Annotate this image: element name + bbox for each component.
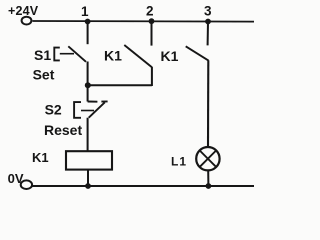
wire branch1 below S1 xyxy=(87,62,89,86)
svg-text:3: 3 xyxy=(204,4,212,19)
svg-text:K1: K1 xyxy=(161,48,179,64)
switch S2 blade xyxy=(89,102,105,117)
svg-text:Reset: Reset xyxy=(44,122,82,138)
svg-text:2: 2 xyxy=(146,4,154,19)
wire bottom rail xyxy=(33,185,255,187)
wire branch3 middle xyxy=(207,60,209,147)
wire coil to bottom rail xyxy=(87,170,89,186)
junction dot coil-rail xyxy=(85,183,91,189)
wire branch2 top xyxy=(151,21,153,46)
svg-text:L1: L1 xyxy=(171,154,187,168)
contact K1 (branch2) blade xyxy=(124,45,152,67)
junction dot A xyxy=(85,82,91,88)
wire branch2 bottom xyxy=(151,67,153,86)
junction dot node 3 xyxy=(205,19,211,25)
svg-text:+24V: +24V xyxy=(8,4,39,18)
terminal +24V xyxy=(22,17,32,25)
switch S2 actuator link xyxy=(81,110,94,112)
switch S1 pushbutton actuator xyxy=(54,48,60,61)
svg-text:S2: S2 xyxy=(45,102,62,118)
junction dot node 1 xyxy=(85,19,91,25)
wire branch1 below S2 xyxy=(87,118,89,152)
relay coil K1 xyxy=(66,151,112,169)
svg-text:Set: Set xyxy=(33,67,55,83)
svg-text:K1: K1 xyxy=(104,48,122,64)
lamp L1 xyxy=(196,147,219,170)
junction dot lamp-rail xyxy=(206,183,212,189)
svg-text:K1: K1 xyxy=(32,150,49,165)
terminal 0V xyxy=(21,180,32,189)
switch S2 pushbutton actuator xyxy=(74,102,81,118)
switch S1 blade xyxy=(68,46,86,62)
wire lamp to bottom rail xyxy=(207,170,209,186)
svg-text:S1: S1 xyxy=(34,47,51,63)
junction dot node 2 xyxy=(149,18,155,24)
contact K1 (branch3) blade xyxy=(186,46,209,60)
svg-text:1: 1 xyxy=(81,4,89,19)
wire branch3 top xyxy=(207,21,209,45)
wire branch1 S2 top terminal xyxy=(87,85,89,101)
wire parallel join xyxy=(88,84,152,86)
wire top rail xyxy=(33,20,255,23)
switch S1 actuator link xyxy=(60,53,74,55)
switch S2 contact seat xyxy=(88,101,98,103)
wire branch1 top xyxy=(87,21,89,44)
switch S2 blade tip tick xyxy=(101,100,107,102)
